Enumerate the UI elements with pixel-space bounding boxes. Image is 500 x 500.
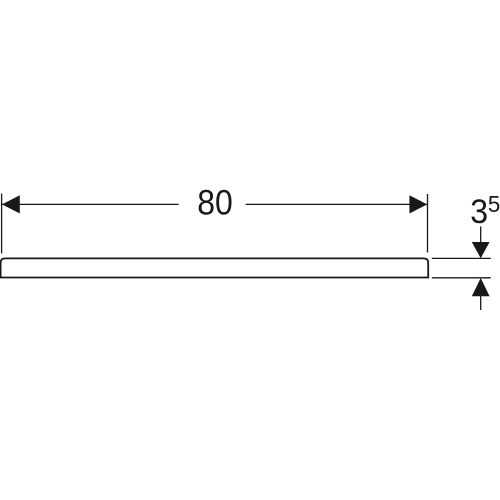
arrowhead right [409, 195, 427, 213]
extension line right (width dim) [427, 194, 429, 253]
extension line left (width dim) [1, 194, 3, 254]
up arrow stem [480, 296, 482, 310]
extension line bottom (thickness dim) [432, 277, 491, 279]
svg-text:5: 5 [488, 190, 500, 217]
svg-text:3: 3 [470, 192, 488, 230]
dimension line 80 left segment [2, 203, 179, 205]
dimension line 80 right segment [246, 203, 427, 205]
label 3 superscript 5 [470, 190, 500, 230]
shower tray profile [1, 258, 429, 277]
svg-text:80: 80 [197, 183, 233, 223]
label 80 [197, 183, 233, 223]
extension line top (thickness dim) [432, 257, 491, 259]
up arrowhead [472, 278, 490, 296]
arrowhead left [2, 195, 20, 213]
down arrowhead [472, 242, 490, 258]
down arrow stem [480, 227, 482, 244]
